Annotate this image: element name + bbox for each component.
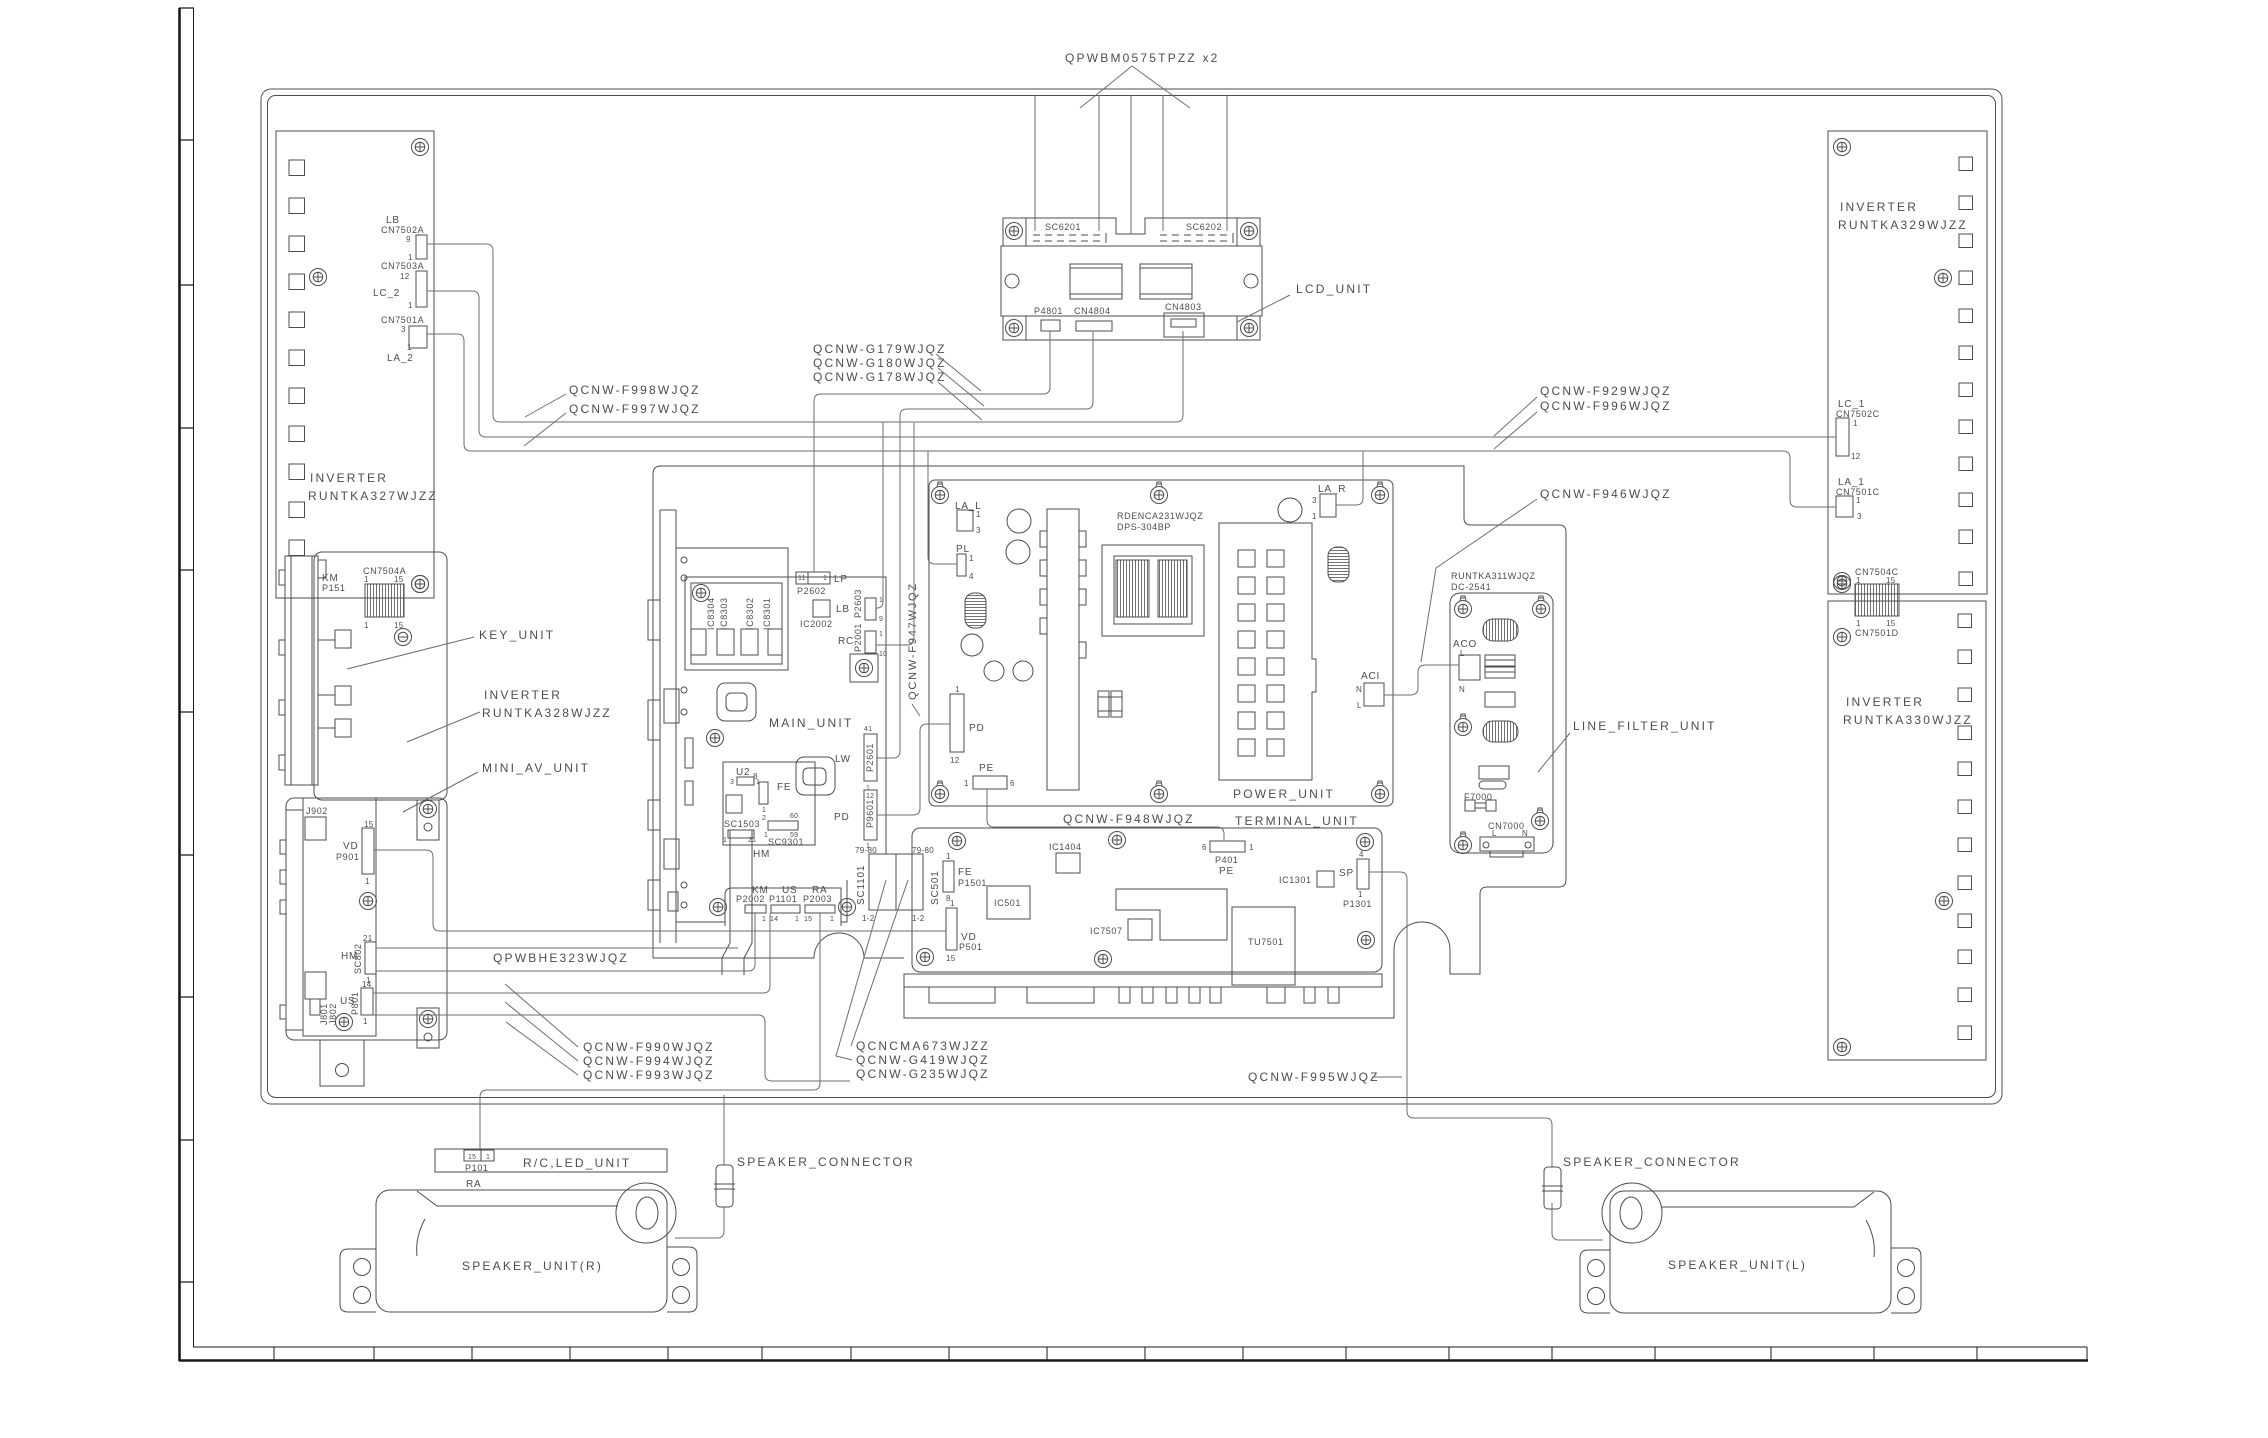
svg-text:QCNW-F946WJQZ: QCNW-F946WJQZ: [1540, 487, 1672, 501]
svg-text:VD: VD: [343, 841, 359, 852]
inverter board RUNTKA330WJZZ: [1828, 601, 1986, 1060]
svg-text:RC: RC: [838, 636, 854, 647]
wire VD P901 to VD P501: [374, 850, 946, 931]
svg-text:1: 1: [363, 1017, 368, 1026]
connector LA_L: [957, 510, 981, 535]
svg-text:CN4803: CN4803: [1165, 302, 1202, 312]
screw strip left: [710, 899, 727, 916]
svg-text:QCNW-F994WJQZ: QCNW-F994WJQZ: [583, 1054, 715, 1068]
svg-text:FE: FE: [958, 867, 972, 878]
svg-text:SC1503: SC1503: [724, 819, 760, 829]
ribbon SC1503: [722, 830, 756, 975]
screw LCD top-right: [1241, 223, 1258, 240]
svg-text:QCNW-F929WJQZ: QCNW-F929WJQZ: [1540, 384, 1672, 398]
connector CN7504C ribbon: [1855, 584, 1899, 616]
svg-text:1: 1: [723, 837, 727, 844]
power fuse pair: [1098, 691, 1122, 717]
screw 329 bottom-left: [1834, 573, 1851, 590]
LCD_UNIT board: [1001, 218, 1262, 340]
wire QCNW-F947 PD to PD: [877, 724, 950, 815]
connector SC501: [896, 854, 923, 910]
svg-text:SC501: SC501: [930, 870, 941, 905]
svg-text:DPS-304BP: DPS-304BP: [1117, 522, 1171, 532]
svg-text:1: 1: [866, 785, 870, 792]
wire LCD cable 3: [1130, 95, 1132, 234]
LCD inner module right: [1140, 264, 1192, 299]
AC connector block: [1219, 523, 1316, 780]
svg-text:12: 12: [400, 272, 410, 281]
svg-text:IC1301: IC1301: [1279, 875, 1312, 885]
rounded pad B: [796, 757, 835, 795]
svg-text:1: 1: [762, 807, 766, 814]
connector box mini AV bottom1: [305, 972, 326, 999]
connector CN4803: [1164, 313, 1204, 337]
svg-text:P1301: P1301: [1343, 899, 1372, 909]
svg-text:QCNW-G419WJQZ: QCNW-G419WJQZ: [856, 1053, 990, 1067]
svg-text:1: 1: [365, 877, 370, 886]
svg-text:LC_2: LC_2: [373, 288, 400, 299]
connector US P801: [361, 988, 373, 1015]
svg-text:INVERTER: INVERTER: [310, 471, 388, 485]
svg-text:QCNW-F995WJQZ: QCNW-F995WJQZ: [1248, 1070, 1380, 1084]
svg-text:QCNCMA673WJZZ: QCNCMA673WJZZ: [856, 1039, 990, 1053]
leader QCNW-G419: [836, 880, 886, 1060]
svg-text:LA_2: LA_2: [387, 353, 414, 364]
screw IC module: [693, 585, 710, 602]
connector PD power: [950, 685, 964, 765]
wire third mini AV line: [373, 1015, 850, 1081]
filter coil top: [1483, 619, 1518, 641]
connector ACO: [1459, 655, 1480, 680]
svg-text:3: 3: [1857, 512, 1862, 521]
screw 330 mid: [1936, 893, 1953, 910]
connector CN7000: [1480, 837, 1534, 857]
leader LINE_FILTER_UNIT: [1538, 733, 1570, 772]
filter comp right: [1485, 655, 1515, 678]
screw 330 bottom-left: [1834, 1039, 1851, 1056]
IC7507: [1128, 919, 1152, 940]
chassis inner frame: [268, 96, 1996, 1098]
svg-text:1: 1: [950, 899, 955, 908]
svg-text:QCNW-G235WJQZ: QCNW-G235WJQZ: [856, 1067, 990, 1081]
svg-text:1: 1: [969, 554, 974, 563]
screw filter bottom-left: [1455, 832, 1472, 854]
svg-text:LB: LB: [836, 604, 850, 615]
screw key enclosure top-right: [412, 576, 429, 593]
svg-text:6: 6: [1010, 779, 1015, 788]
svg-text:CN7503A: CN7503A: [381, 261, 424, 271]
svg-text:RUNTKA311WJQZ: RUNTKA311WJQZ: [1451, 571, 1536, 581]
screw LCD bottom-right: [1241, 320, 1258, 337]
mini AV side bracket: [280, 810, 303, 1030]
screw 327 bottom-right: [412, 576, 429, 593]
connector P401: [1202, 841, 1254, 852]
connector P9601: [864, 790, 877, 850]
leader F997: [524, 413, 566, 446]
svg-text:RUNTKA330WJZZ: RUNTKA330WJZZ: [1843, 713, 1973, 727]
svg-text:N: N: [1459, 685, 1465, 694]
mounting squares 327: [289, 160, 305, 556]
connector SC9301: [764, 813, 798, 839]
svg-text:1: 1: [955, 685, 960, 694]
svg-text:QCNW-G180WJQZ: QCNW-G180WJQZ: [813, 356, 947, 370]
svg-text:QCNW-G179WJQZ: QCNW-G179WJQZ: [813, 342, 947, 356]
leader QCNCMA673: [851, 880, 908, 1046]
svg-text:P9601: P9601: [865, 799, 875, 828]
svg-text:SPEAKER_UNIT(R): SPEAKER_UNIT(R): [462, 1259, 603, 1273]
wire LCD cable 5: [1226, 95, 1228, 231]
svg-text:PD: PD: [969, 723, 985, 734]
wire QPWBHE323 HM ribbon: [376, 947, 738, 949]
leader F929: [1494, 397, 1537, 436]
leader F994: [505, 1002, 578, 1061]
power coil left: [965, 593, 986, 628]
leader KEY_UNIT: [347, 637, 474, 669]
svg-text:1: 1: [364, 621, 369, 630]
power circle mid2: [984, 661, 1004, 681]
svg-text:3: 3: [401, 325, 406, 334]
svg-text:15: 15: [394, 575, 404, 584]
leader F995: [1372, 1076, 1402, 1078]
svg-text:DC-2541: DC-2541: [1451, 582, 1491, 592]
power big circle: [1278, 498, 1302, 522]
svg-text:1-2: 1-2: [912, 914, 925, 923]
svg-text:P2002: P2002: [736, 894, 765, 904]
svg-text:15: 15: [804, 916, 812, 923]
svg-text:CN7501D: CN7501D: [1855, 628, 1899, 638]
svg-text:1: 1: [762, 916, 766, 923]
chassis outer frame: [261, 89, 2002, 1104]
screw filter top-right: [1533, 596, 1550, 618]
screw 329 top-left: [1834, 139, 1851, 156]
screw 327 mid-left: [310, 269, 327, 286]
svg-text:IC2002: IC2002: [800, 619, 833, 629]
terminal rear tabs: [929, 987, 1339, 1003]
dashed pad rows SC6201: [1033, 235, 1102, 241]
screw filter bottom-right: [1532, 808, 1549, 830]
POWER_UNIT board: [929, 480, 1393, 806]
MINI_AV enclosure: [286, 798, 447, 1040]
wire LA net: [427, 334, 1836, 507]
power heatsink: [1040, 509, 1086, 790]
wire QCNW-G179 P4801 to LP: [814, 331, 1050, 572]
svg-text:LW: LW: [835, 754, 851, 765]
power circles top: [1007, 509, 1031, 533]
SPEAKER_UNIT(L) body: [1580, 1183, 1921, 1313]
svg-text:SP: SP: [1339, 868, 1354, 879]
svg-text:1: 1: [879, 631, 883, 638]
svg-text:CN7501A: CN7501A: [381, 315, 424, 325]
svg-text:QCNW-F993WJQZ: QCNW-F993WJQZ: [583, 1068, 715, 1082]
mounting squares 329: [1959, 157, 1973, 586]
svg-text:L: L: [1357, 701, 1362, 710]
svg-text:15: 15: [946, 954, 956, 963]
connector PL: [957, 554, 974, 581]
leader RUNTKA328WJZZ: [407, 712, 480, 742]
svg-text:R/C,LED_UNIT: R/C,LED_UNIT: [523, 1156, 631, 1170]
mini AV board: [303, 798, 376, 1036]
wire speaker R connector: [675, 1095, 724, 1238]
connector P101: [464, 1150, 494, 1161]
svg-text:QCNW-F998WJQZ: QCNW-F998WJQZ: [569, 383, 701, 397]
screw power top-left: [932, 482, 949, 504]
screw terminal top-right: [1357, 834, 1374, 851]
IC module block: [685, 577, 788, 670]
wire branch LB to P2603: [876, 422, 883, 608]
connector LA_1 CN7501C: [1836, 496, 1862, 521]
svg-text:1: 1: [1249, 843, 1254, 852]
dashed pad rows SC6202: [1160, 235, 1229, 241]
svg-text:ACO: ACO: [1453, 639, 1477, 650]
leader LCD_UNIT: [1237, 295, 1290, 322]
wire LB net: [427, 244, 1183, 422]
wire QCNW-F948 PE to P401: [987, 789, 1224, 841]
svg-text:J802: J802: [328, 1003, 338, 1025]
svg-text:P2603: P2603: [853, 589, 863, 618]
svg-text:12: 12: [950, 756, 960, 765]
svg-text:P2001: P2001: [853, 623, 863, 652]
connector LP P2602: [796, 572, 830, 584]
svg-text:3: 3: [1312, 496, 1317, 505]
connector SC1101: [869, 854, 896, 910]
svg-text:J902: J902: [306, 806, 328, 816]
svg-text:IC8304: IC8304: [706, 597, 716, 630]
svg-text:QCNW-F990WJQZ: QCNW-F990WJQZ: [583, 1040, 715, 1054]
svg-text:PE: PE: [1219, 866, 1234, 877]
wire US P801 to P1101: [373, 913, 770, 993]
connector FE P1501: [943, 852, 954, 903]
svg-text:HM: HM: [753, 849, 770, 860]
screw power top-mid: [1151, 482, 1168, 504]
connector CN4804: [1076, 321, 1112, 331]
svg-text:1: 1: [1856, 619, 1861, 628]
screw main mid-left: [707, 730, 724, 747]
svg-text:QCNW-F947WJQZ: QCNW-F947WJQZ: [907, 582, 919, 700]
KEY_UNIT enclosure: [314, 552, 447, 800]
IC2002: [813, 600, 830, 617]
leader arrows QPWBM0575TPZZ: [1080, 66, 1190, 108]
FE part main: [753, 772, 768, 822]
leader G178: [938, 382, 982, 420]
IC1404: [1056, 853, 1080, 873]
connector P2601: [864, 726, 877, 792]
screw power bottom-mid: [1151, 781, 1168, 803]
bottom margin ruler: [179, 1347, 2088, 1361]
screw LCD top-left: [1006, 223, 1023, 240]
wire LCD cable 2: [1098, 95, 1100, 231]
svg-text:6: 6: [1202, 843, 1207, 852]
SC1503 square: [726, 795, 742, 813]
svg-text:RDENCA231WJQZ: RDENCA231WJQZ: [1117, 511, 1203, 521]
wire LC net: [427, 291, 1836, 437]
svg-text:PE: PE: [979, 763, 994, 774]
leader F947: [912, 704, 920, 716]
fuse F7000: [1465, 800, 1496, 811]
svg-text:INVERTER: INVERTER: [1846, 695, 1924, 709]
svg-text:FE: FE: [777, 782, 791, 793]
screw 329 mid: [1935, 270, 1952, 287]
connector HM SC802: [365, 942, 376, 974]
svg-text:14: 14: [770, 916, 778, 923]
svg-text:1: 1: [1358, 890, 1363, 899]
svg-text:PD: PD: [834, 812, 850, 823]
svg-text:SC1101: SC1101: [856, 865, 867, 905]
svg-text:P101: P101: [465, 1163, 488, 1173]
svg-text:P2601: P2601: [865, 743, 875, 772]
key unit assembly: [279, 556, 351, 785]
screw terminal bottom-mid: [1095, 951, 1112, 968]
filter lower rect: [1479, 766, 1509, 779]
svg-text:P501: P501: [959, 942, 982, 952]
svg-text:SPEAKER_UNIT(L): SPEAKER_UNIT(L): [1668, 1258, 1807, 1272]
screw terminal bottom-left: [917, 949, 934, 966]
svg-text:QPWBHE323WJQZ: QPWBHE323WJQZ: [493, 951, 629, 965]
svg-text:SPEAKER_CONNECTOR: SPEAKER_CONNECTOR: [1563, 1155, 1741, 1169]
svg-text:L: L: [1460, 649, 1465, 658]
svg-text:P401: P401: [1215, 855, 1238, 865]
svg-text:P1501: P1501: [958, 878, 987, 888]
KM US RA strip: [725, 888, 841, 926]
speaker connector L: [1542, 1167, 1563, 1209]
leader MINI_AV_UNIT: [403, 772, 478, 812]
svg-text:TU7501: TU7501: [1248, 937, 1284, 947]
screw CN7504C left: [1834, 576, 1851, 593]
leader F990: [505, 984, 578, 1047]
svg-text:1: 1: [407, 343, 412, 352]
main unit shield enclosure: [653, 466, 1566, 1018]
svg-text:QCNW-F997WJQZ: QCNW-F997WJQZ: [569, 402, 701, 416]
svg-text:KEY_UNIT: KEY_UNIT: [479, 628, 555, 642]
svg-text:3: 3: [976, 526, 981, 535]
screw terminal top-left: [949, 833, 966, 850]
speaker connector R: [714, 1165, 735, 1207]
svg-text:IC501: IC501: [994, 898, 1021, 908]
power circle mid1: [961, 634, 983, 656]
svg-text:P2602: P2602: [797, 586, 826, 596]
connector P2003: [804, 905, 835, 923]
svg-text:15: 15: [468, 1154, 476, 1161]
wire LCD cable 4: [1162, 95, 1164, 231]
IC pads: [691, 629, 782, 655]
leader G180: [938, 368, 984, 406]
connector box mini AV bottom2: [310, 999, 320, 1015]
svg-text:12: 12: [866, 793, 874, 800]
svg-text:LINE_FILTER_UNIT: LINE_FILTER_UNIT: [1573, 719, 1717, 733]
connector P2603: [865, 598, 876, 620]
svg-text:IC1404: IC1404: [1049, 842, 1082, 852]
svg-text:1: 1: [486, 1154, 490, 1161]
screw LCD bottom-left: [1006, 320, 1023, 337]
svg-text:41: 41: [864, 726, 872, 733]
svg-text:N: N: [1356, 685, 1362, 694]
filter lower rounded: [1479, 781, 1506, 789]
power coil right: [1328, 547, 1349, 582]
svg-text:60: 60: [790, 813, 798, 820]
left margin ruler: [179, 8, 194, 1361]
connector P4801: [1041, 320, 1060, 331]
svg-text:SC9301: SC9301: [768, 837, 804, 847]
screw strip right: [839, 899, 856, 916]
svg-text:PL: PL: [956, 544, 970, 555]
svg-text:LP: LP: [834, 574, 848, 585]
svg-text:9: 9: [406, 235, 411, 244]
wire LCD cable 1: [1034, 95, 1036, 231]
connector PE power: [964, 776, 1015, 789]
svg-text:IC7507: IC7507: [1090, 926, 1123, 936]
connector J902: [305, 817, 326, 840]
svg-text:P4801: P4801: [1034, 306, 1063, 316]
svg-text:MAIN_UNIT: MAIN_UNIT: [769, 716, 853, 730]
TERMINAL_UNIT board: [912, 828, 1382, 972]
svg-text:POWER_UNIT: POWER_UNIT: [1233, 787, 1335, 801]
svg-text:15: 15: [1886, 619, 1896, 628]
svg-text:IC8301: IC8301: [762, 597, 772, 630]
svg-text:P2003: P2003: [803, 894, 832, 904]
svg-text:CN7502A: CN7502A: [381, 225, 424, 235]
filter mid rect: [1485, 692, 1515, 707]
svg-text:4: 4: [1359, 850, 1364, 859]
svg-text:1: 1: [795, 916, 799, 923]
svg-text:3: 3: [730, 779, 734, 786]
LCD hole left: [1005, 274, 1019, 288]
wire ACI to ACO: [1384, 665, 1459, 695]
svg-text:21: 21: [748, 837, 756, 844]
svg-text:TERMINAL_UNIT: TERMINAL_UNIT: [1235, 814, 1359, 828]
screw pad bottom-right mini enclosure: [417, 1008, 439, 1048]
svg-text:1: 1: [976, 510, 981, 519]
screw power top-right: [1372, 482, 1389, 504]
terminal shield plate: [1116, 889, 1227, 940]
svg-text:LCD_UNIT: LCD_UNIT: [1296, 282, 1372, 296]
LINE_FILTER board: [1450, 593, 1553, 853]
screw minus below CN7504A: [395, 629, 412, 646]
wire branch LA to PL: [928, 451, 957, 564]
screw terminal top-mid: [1109, 832, 1126, 849]
wire branch CN4803 to P2001: [876, 423, 914, 645]
IC1301: [1317, 871, 1334, 887]
svg-text:SC6202: SC6202: [1186, 222, 1222, 232]
wire RA P2003 to P101: [480, 913, 820, 1149]
screw 327 top-right: [412, 139, 429, 156]
IC501: [987, 886, 1030, 919]
svg-text:10: 10: [879, 651, 887, 658]
connector SP P1301: [1357, 850, 1369, 899]
svg-text:1-2: 1-2: [862, 914, 875, 923]
inverter board RUNTKA329WJZZ: [1828, 131, 1987, 594]
R/C LED unit board: [435, 1149, 667, 1172]
svg-text:1: 1: [1853, 419, 1858, 428]
power transformer: [1102, 545, 1204, 636]
svg-text:1: 1: [964, 779, 969, 788]
LCD hole right: [1244, 274, 1258, 288]
inverter board RUNTKA327WJZZ: [276, 131, 434, 598]
svg-text:RUNTKA327WJZZ: RUNTKA327WJZZ: [308, 489, 438, 503]
svg-text:SPEAKER_CONNECTOR: SPEAKER_CONNECTOR: [737, 1155, 915, 1169]
svg-text:ACI: ACI: [1361, 671, 1380, 682]
mini AV bottom tab: [320, 1040, 364, 1086]
svg-text:IC8302: IC8302: [745, 597, 755, 630]
svg-text:8: 8: [753, 772, 758, 781]
screw filter top-left: [1455, 596, 1472, 618]
leader F996: [1494, 412, 1537, 449]
U2 block outline: [723, 762, 815, 845]
screw filter mid: [1455, 714, 1472, 736]
svg-text:4: 4: [969, 572, 974, 581]
screw pad top-right mini enclosure: [417, 800, 439, 840]
connector VD P501: [946, 899, 957, 963]
connector P2001: [865, 631, 876, 653]
svg-text:1: 1: [946, 852, 951, 861]
